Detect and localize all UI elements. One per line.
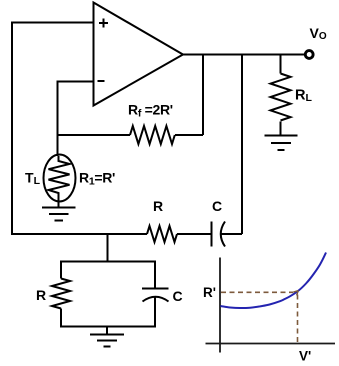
wire tank left lower (60, 309, 62, 328)
svg-text:C: C (212, 198, 222, 214)
wire R to C (177, 233, 212, 235)
wire load RL top (280, 55, 282, 74)
svg-text:V': V' (299, 349, 311, 364)
ground RL bars (265, 136, 298, 151)
capacitor C series left plate (211, 222, 213, 247)
wire C to vertical (220, 233, 242, 235)
wire thermistor to ground (58, 200, 60, 208)
wire tank junction vertical (107, 234, 109, 262)
capacitor C series curved plate (221, 222, 225, 247)
wire feedback left (58, 134, 131, 136)
ground thermistor bars (42, 208, 76, 221)
svg-text:R': R' (203, 285, 216, 300)
wire tank box top (61, 261, 155, 263)
wire left vertical rail (11, 22, 13, 236)
svg-text:R: R (36, 287, 46, 303)
graph y-axis (219, 258, 221, 353)
wire noninverting input (12, 22, 94, 24)
resistor R tank zigzag (52, 279, 70, 309)
thermistor TL zigzag (49, 156, 70, 201)
svg-text:TL: TL (25, 170, 41, 188)
resistor Rf zigzag (130, 126, 175, 144)
thermistor TL ellipse (44, 155, 76, 202)
wire tank left upper (60, 261, 62, 279)
capacitor C tank curved plate (143, 297, 169, 302)
graph curve blue (220, 253, 326, 309)
wire tank box bottom (61, 326, 155, 328)
wire feedback right (175, 134, 203, 136)
wire tank right lower (154, 297, 156, 328)
wire output (183, 54, 305, 56)
graph dashed vertical V' (297, 295, 299, 344)
wire inverting node vertical (57, 81, 59, 157)
ground tank bars (90, 335, 124, 347)
wire feedback vertical to output (202, 55, 204, 136)
wire bottom horizontal left (12, 233, 147, 235)
capacitor C tank top plate (142, 288, 169, 290)
svg-text:C: C (173, 288, 183, 304)
wire tank right upper (154, 261, 156, 289)
wire load RL bottom (280, 122, 282, 136)
output terminal circle (305, 51, 313, 59)
svg-text:R1=R': R1=R' (79, 170, 115, 188)
resistor R series zigzag (147, 226, 177, 242)
op-amp plus input marking (99, 19, 108, 28)
wire inverting input (58, 81, 94, 83)
graph arrow at dash corner (293, 291, 298, 296)
svg-text:VO: VO (310, 25, 327, 42)
ground tank stem (106, 327, 108, 335)
graph dashed horizontal R' (221, 291, 293, 293)
graph x-axis (206, 343, 336, 345)
svg-text:RL: RL (295, 88, 312, 105)
svg-text:R: R (153, 198, 163, 214)
wire output feedback vertical (241, 55, 243, 235)
resistor RL zigzag (271, 74, 291, 121)
svg-text:Rf =2R': Rf =2R' (128, 102, 173, 120)
op-amp U1 (94, 3, 184, 106)
op-amp minus input marking (98, 80, 105, 82)
